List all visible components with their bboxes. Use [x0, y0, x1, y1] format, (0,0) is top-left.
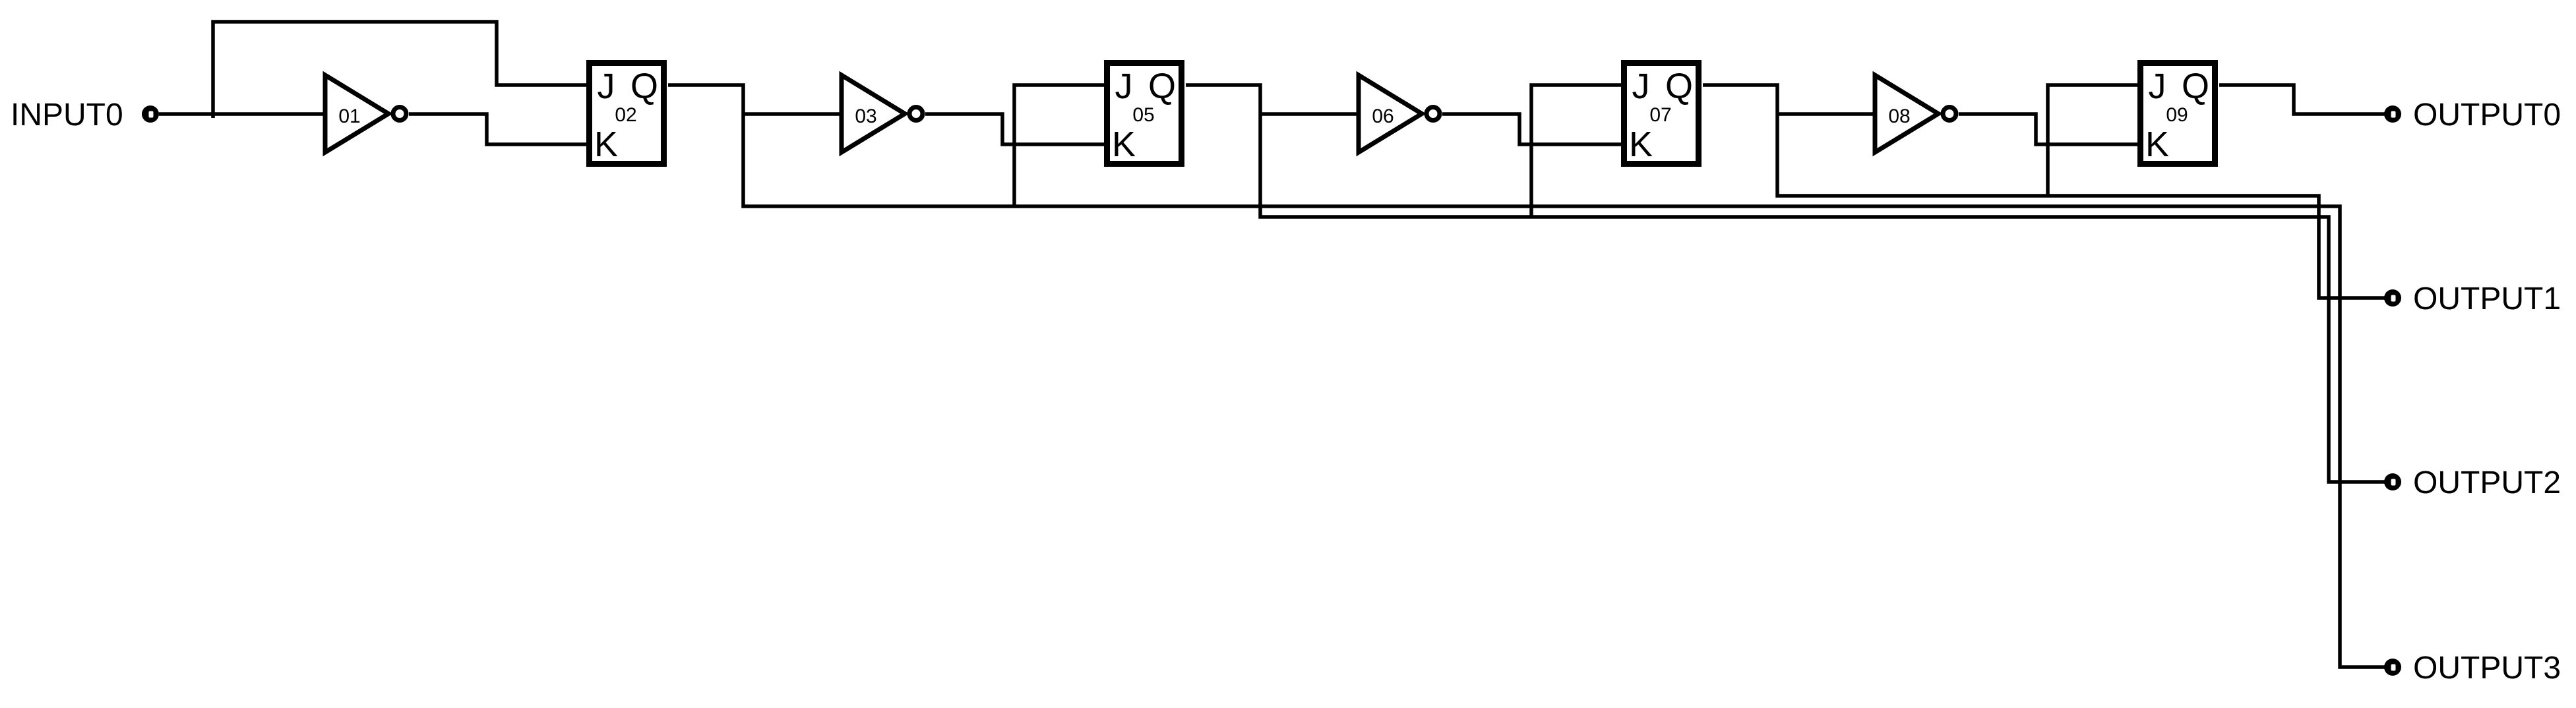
wire feedback line A up to J of flip-flop 05 — [1014, 85, 1104, 206]
wire branch node to inverter 06 input — [1260, 112, 1359, 116]
output terminal OUTPUT3 — [2384, 659, 2401, 676]
svg-text:K: K — [2145, 125, 2169, 164]
wire inverter 08 output to K of flip-flop 09 — [1959, 114, 2137, 144]
wire branch node to inverter 03 input — [743, 112, 842, 116]
svg-text:Q: Q — [630, 67, 658, 106]
svg-text:06: 06 — [1372, 105, 1394, 127]
svg-text:OUTPUT1: OUTPUT1 — [2413, 281, 2561, 316]
output terminal OUTPUT1 — [2384, 289, 2401, 307]
wire Q of flip-flop 05 down to feedback line B and to OUTPUT2 — [1186, 85, 2385, 482]
svg-text:Q: Q — [2182, 67, 2209, 106]
svg-text:OUTPUT2: OUTPUT2 — [2413, 465, 2561, 500]
output terminal OUTPUT2 — [2384, 473, 2401, 490]
svg-text:J: J — [2149, 67, 2166, 106]
wire inverter 03 output to K of flip-flop 05 — [925, 114, 1104, 144]
svg-text:OUTPUT3: OUTPUT3 — [2413, 651, 2561, 686]
svg-text:J: J — [1115, 67, 1133, 106]
inverter 03 — [842, 75, 923, 152]
flip-flop 05 (JK) — [1107, 63, 1182, 165]
svg-text:K: K — [594, 125, 618, 164]
svg-text:Q: Q — [1148, 67, 1176, 106]
svg-text:J: J — [598, 67, 615, 106]
input terminal INPUT0 — [142, 105, 159, 123]
inverter 06 — [1359, 75, 1440, 152]
flip-flop 02 (JK) — [590, 63, 664, 165]
wire branch node to inverter 08 input — [1777, 112, 1875, 116]
flip-flop 07 (JK) — [1624, 63, 1699, 165]
inverter 01 — [325, 75, 406, 152]
svg-text:03: 03 — [855, 105, 876, 127]
svg-text:09: 09 — [2166, 104, 2188, 126]
wire feedback line B up to J of flip-flop 07 — [1531, 85, 1621, 217]
wire inverter 06 output to K of flip-flop 07 — [1442, 114, 1621, 144]
svg-text:02: 02 — [615, 104, 636, 126]
svg-text:01: 01 — [338, 105, 360, 127]
wire INPUT0 branch top feedback to J of flip-flop 02 — [213, 22, 586, 118]
flip-flop 09 (JK) — [2141, 63, 2215, 165]
wire feedback line C up to J of flip-flop 09 — [2048, 85, 2137, 196]
svg-text:OUTPUT0: OUTPUT0 — [2413, 98, 2561, 133]
svg-text:Q: Q — [1665, 67, 1693, 106]
svg-text:J: J — [1632, 67, 1650, 106]
wire INPUT0 to inverter 01 input — [159, 112, 325, 116]
wire inverter 01 output to K of flip-flop 02 — [409, 114, 586, 144]
svg-text:05: 05 — [1132, 104, 1154, 126]
svg-text:K: K — [1112, 125, 1136, 164]
output terminal OUTPUT0 — [2384, 105, 2401, 123]
wire Q of flip-flop 02 down to feedback line A and to OUTPUT3 — [668, 85, 2385, 667]
svg-text:07: 07 — [1649, 104, 1671, 126]
svg-text:08: 08 — [1888, 105, 1910, 127]
wire Q of flip-flop 07 down to feedback line C and to OUTPUT1 — [1703, 85, 2385, 298]
inverter 08 — [1875, 75, 1956, 152]
svg-text:INPUT0: INPUT0 — [11, 98, 123, 133]
svg-text:K: K — [1629, 125, 1653, 164]
wire Q of flip-flop 09 to OUTPUT0 — [2219, 85, 2385, 114]
